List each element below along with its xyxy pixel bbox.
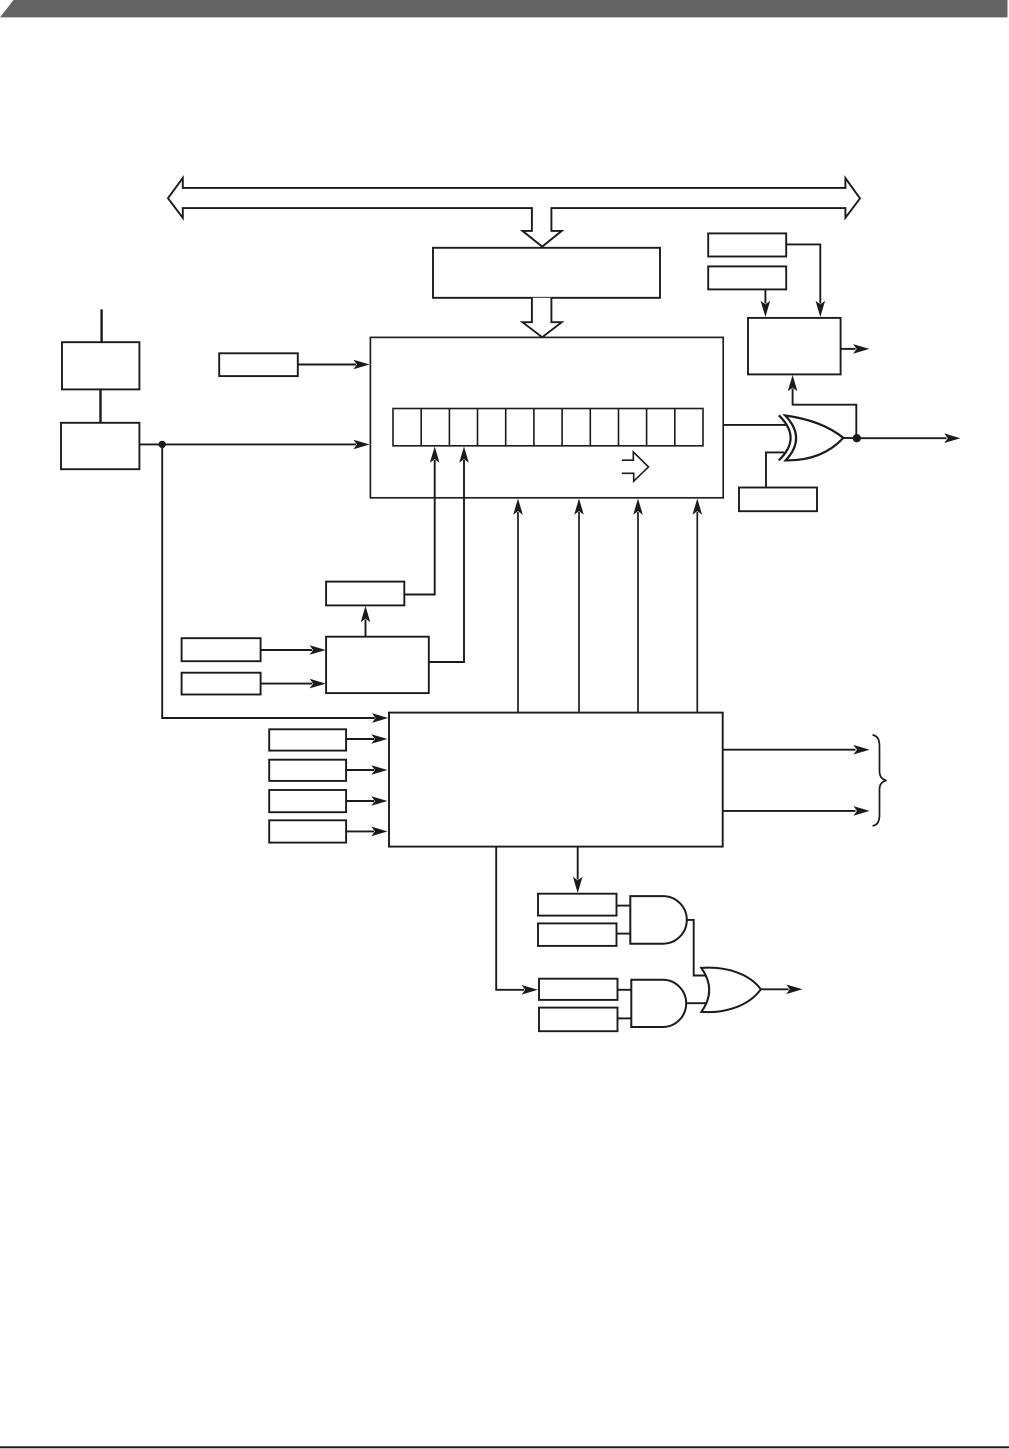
register box J: [182, 638, 261, 661]
wire box B to box C: [764, 289, 766, 303]
mode select box L4: [269, 820, 346, 842]
data register box B1: [433, 248, 660, 298]
wire U3 up to shift register 1: [517, 512, 519, 713]
wire L1 to U3: [346, 738, 374, 740]
AND gate G2: [631, 980, 686, 1027]
mode select box L3: [269, 790, 346, 812]
wire OR output (interrupt): [761, 988, 789, 990]
register box K: [182, 673, 261, 695]
wire box C output right: [841, 348, 856, 350]
AND gate G1: [630, 896, 687, 944]
wire U3 up to shift register 3: [637, 512, 639, 713]
wire box I up to box H: [365, 620, 367, 637]
wire U3 output upper right: [723, 749, 856, 751]
wire box J to box I: [261, 649, 313, 651]
wire L2 to U3: [346, 769, 374, 771]
control unit box U3: [389, 713, 723, 847]
wire box F to shift register (clock): [139, 443, 356, 445]
wire shift register to XOR top input: [723, 424, 786, 426]
wire node up to box C bottom: [793, 389, 857, 439]
footer rule: [0, 1446, 1009, 1448]
pin stub above box E: [100, 309, 102, 343]
oscillator box E: [62, 342, 139, 389]
mode select box L2: [269, 760, 346, 781]
wire L4 to U3: [346, 830, 374, 832]
wire box H up to shift register cells: [404, 460, 434, 595]
XOR gate input arc: [779, 415, 791, 460]
OR gate G3: [701, 968, 761, 1012]
wire box E to box F: [99, 389, 101, 423]
prescaler box F: [61, 423, 139, 469]
flag box M1: [539, 979, 618, 1000]
wire U3 up to shift register 2: [578, 512, 580, 713]
wire U3 up to shift register 4: [696, 512, 698, 713]
wire box K to box I: [261, 683, 313, 685]
control logic box C: [748, 318, 841, 375]
shift register cells: [393, 409, 703, 446]
control register box A (top right): [708, 233, 786, 256]
flag box T1: [538, 894, 617, 916]
register box D (below XOR): [739, 488, 817, 512]
shift direction glyph: [622, 452, 649, 481]
mode select box L1: [269, 729, 346, 750]
wire XOR output to right arrow: [843, 437, 946, 439]
wire AND2 output to OR input: [686, 1002, 706, 1004]
wire U3 down to box T1: [577, 847, 579, 880]
wire M1 to AND2: [618, 989, 633, 991]
wire box D to XOR lower input: [766, 452, 785, 487]
XOR gate body: [785, 416, 843, 461]
node dot clock line: [159, 441, 166, 448]
wire M2 to AND2: [618, 1017, 633, 1019]
shift register outer box U2: [370, 337, 723, 497]
wire U3 output lower right: [723, 810, 856, 812]
output group brace: [873, 735, 887, 826]
control register box B (top right): [708, 266, 786, 289]
counter box H: [326, 582, 404, 606]
wire T1 to AND1: [617, 905, 632, 907]
mask box T2: [538, 923, 617, 946]
register box G: [219, 353, 298, 376]
node dot XOR output: [853, 434, 861, 442]
wire T2 to AND1: [617, 933, 632, 935]
wire L3 to U3: [346, 800, 374, 802]
compare box I: [326, 637, 429, 693]
data bus (double-headed) with branch arrow to data register: [168, 178, 860, 247]
mask box M2: [539, 1008, 618, 1032]
wire box G to shift register: [298, 364, 356, 366]
header bar: [0, 0, 1008, 17]
wire box A to box C: [786, 244, 820, 303]
hollow bus arrow B1 to shift-register box: [523, 298, 562, 337]
wire U3 down to box M1: [496, 847, 524, 990]
wire box I up to shift register cells: [429, 460, 464, 662]
wire AND1 output to OR input: [687, 920, 706, 976]
wire node down to control box U3: [162, 444, 375, 718]
